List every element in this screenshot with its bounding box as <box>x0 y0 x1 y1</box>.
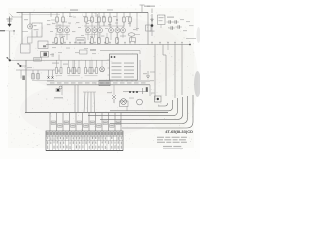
svg-text:4T-65(8L33)CD: 4T-65(8L33)CD <box>165 129 193 134</box>
